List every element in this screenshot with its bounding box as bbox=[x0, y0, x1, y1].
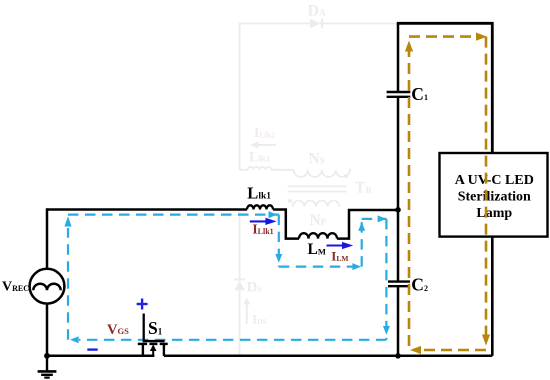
wire output loop top + right down to lamp bbox=[397, 23, 493, 153]
svg-text:Lamp: Lamp bbox=[476, 206, 512, 221]
arrowhead gold down (bottom right) bbox=[482, 335, 490, 346]
arrowhead cyan right (toward C2) bbox=[378, 215, 387, 222]
svg-text:VREC: VREC bbox=[2, 280, 29, 295]
svg-text:Llk1: Llk1 bbox=[247, 183, 271, 202]
node ground junction bbox=[44, 353, 50, 359]
wire cyan loop vertical up right of LM bbox=[361, 219, 363, 267]
arrowhead cyan left (bottom end) bbox=[70, 336, 79, 343]
minus sign (blue, source) bbox=[87, 348, 97, 350]
svg-text:C2: C2 bbox=[411, 274, 428, 294]
capacitor C1 bbox=[387, 92, 411, 97]
svg-text:NS: NS bbox=[309, 150, 325, 167]
svg-text:NP: NP bbox=[310, 212, 327, 229]
svg-text:Sterilization: Sterilization bbox=[458, 189, 531, 204]
plus sign (blue, gate) bbox=[137, 299, 148, 310]
svg-text:S1: S1 bbox=[148, 318, 163, 338]
wire gold loop bottom horizontal bbox=[420, 349, 486, 352]
arrowhead gold left (bottom) bbox=[410, 346, 421, 354]
current arrow ILlk2 (faded, pointing left) bbox=[251, 125, 276, 149]
wire faded DS branch (vertical) bbox=[239, 210, 241, 356]
wire cyan loop bottom horizontal bbox=[79, 339, 386, 341]
arrowhead gold right (top) bbox=[476, 33, 487, 41]
arrowhead cyan right (under LM) bbox=[352, 263, 361, 270]
wire bottom rail right piece (MOSFET drain to lamp) bbox=[164, 355, 492, 358]
wire faded secondary loop (left vertical + top horizontal) bbox=[240, 24, 399, 170]
svg-text:ILM: ILM bbox=[331, 249, 348, 264]
svg-text:ILlk1: ILlk1 bbox=[252, 222, 273, 237]
current arrow IDS (faded, pointing up) bbox=[243, 298, 266, 327]
inductor Llk2 (faded) bbox=[240, 149, 294, 170]
wire step up to node bbox=[337, 210, 398, 239]
transformer winding NS (faded) bbox=[294, 150, 351, 178]
wire vertical x=398 middle segment (C1 to C2) bbox=[397, 97, 400, 282]
box A UV-C LED Sterilization Lamp bbox=[440, 153, 548, 237]
inductor Llk1 bbox=[247, 205, 273, 209]
wire cyan loop left vertical bbox=[67, 228, 69, 340]
arrowhead gold up (top left) bbox=[405, 41, 413, 52]
diode DS (faded, pointing up) bbox=[234, 279, 262, 295]
wire cyan loop horizontal under LM bbox=[279, 266, 362, 268]
arrowhead cyan down (at x=278.8) bbox=[275, 254, 282, 263]
node junction bottom (398,355.8) bbox=[395, 353, 401, 359]
svg-text:DA: DA bbox=[308, 2, 327, 19]
wire main top horizontal from VREC to Llk1 bbox=[47, 208, 247, 211]
current arrow ILlk1 (blue) bbox=[250, 218, 277, 225]
wire cyan loop top horizontal bbox=[68, 214, 279, 216]
wire gold loop left vertical bbox=[408, 48, 411, 350]
svg-text:IDS: IDS bbox=[252, 311, 267, 326]
wire cyan loop vertical at Llk1 output bbox=[278, 215, 280, 267]
diode DA (faded, on top wire) bbox=[308, 2, 327, 28]
wire vertical x=398 top segment (to C1) bbox=[397, 23, 400, 92]
wire cyan loop right vertical through C2 bbox=[385, 219, 387, 340]
svg-text:TR: TR bbox=[355, 180, 372, 197]
arrowhead cyan down (right vertical bottom) bbox=[383, 326, 390, 335]
arrowhead cyan up (top of left vertical) bbox=[64, 216, 71, 226]
transformer core TR (faded) bbox=[288, 180, 373, 197]
wire gold loop top horizontal bbox=[409, 35, 478, 38]
transistor S1 (MOSFET in bottom rail) bbox=[138, 314, 168, 356]
svg-text:DS: DS bbox=[247, 279, 263, 295]
svg-text:Llk2: Llk2 bbox=[249, 149, 270, 165]
wire VREC top lead bbox=[46, 208, 49, 268]
wire vertical x=398 bottom segment (C2 to bottom rail) bbox=[397, 286, 400, 356]
wire cyan loop short horizontal toward C2 bbox=[362, 218, 387, 220]
svg-text:A UV-C LED: A UV-C LED bbox=[455, 173, 534, 188]
arrowhead cyan right (top, before corner) bbox=[269, 211, 278, 218]
wire gold loop right vertical (through lamp) bbox=[485, 37, 488, 337]
capacitor C2 bbox=[388, 282, 410, 287]
wire bottom rail left piece (ground to MOSFET source) bbox=[47, 355, 154, 358]
wire VREC bottom lead bbox=[46, 304, 49, 356]
wire step down to LM level bbox=[273, 210, 299, 239]
ground bbox=[38, 356, 57, 378]
inductor LM bbox=[299, 233, 337, 238]
source VREC (circle with rectified-sine symbol) bbox=[30, 269, 65, 304]
svg-text:VGS: VGS bbox=[107, 322, 129, 338]
wire lamp bottom to bottom rail bbox=[491, 237, 494, 356]
svg-text:LM: LM bbox=[308, 241, 326, 258]
transformer winding NP (faded) bbox=[288, 199, 339, 229]
arrowhead cyan up (right of LM) bbox=[358, 222, 365, 231]
current arrow ILM (blue) bbox=[327, 242, 354, 249]
svg-text:ILlk2: ILlk2 bbox=[254, 125, 275, 140]
node junction top (398,209.8) bbox=[395, 207, 401, 213]
svg-text:C1: C1 bbox=[411, 84, 428, 104]
